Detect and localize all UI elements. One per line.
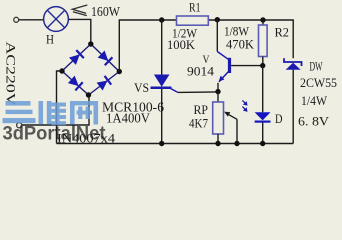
thyristor VS anode lead [161, 20, 163, 75]
node base junction [260, 63, 265, 68]
resistor R2 lead bottom [262, 57, 264, 66]
resistor R2 lead top [262, 20, 264, 25]
terminal T1 (AC live) [14, 17, 19, 22]
label DW [310, 59, 323, 74]
wire T2 to bridge bottom (AC return) [22, 97, 89, 125]
watermark glyph san (three) [3, 101, 36, 123]
wire bridge left (DC-) down to bottom rail [57, 71, 63, 144]
bridge diode D2 (top-right arm, points to right) [97, 50, 112, 65]
svg-text:100K: 100K [167, 37, 196, 52]
bottom rail [57, 143, 294, 145]
label AC220V (rotated) [4, 42, 19, 107]
lamp H [44, 7, 69, 32]
svg-text:1A400V: 1A400V [106, 111, 150, 126]
label 4K7 [189, 116, 208, 131]
label 1A400V [106, 111, 150, 126]
resistor R1 [177, 16, 209, 25]
svg-text:2CW55: 2CW55 [300, 75, 337, 90]
svg-text:R1: R1 [189, 0, 201, 14]
bridge arm wires (navy) [62, 44, 119, 95]
label MCR100-6 [102, 100, 164, 115]
watermark glyph wei [39, 101, 67, 125]
node bridge bottom [86, 92, 91, 97]
potentiometer RP lead bottom [217, 134, 219, 144]
wire lamp to bridge top [69, 19, 91, 44]
transistor V (9014) [218, 58, 231, 92]
label 9014 [187, 64, 215, 79]
svg-text:VS: VS [134, 80, 149, 95]
label 1/8W [224, 24, 250, 39]
node rail-wiper [234, 141, 239, 146]
label 100K [167, 37, 196, 52]
node bridge top [88, 41, 93, 46]
wire T1 to lamp [19, 19, 44, 21]
label RP [194, 102, 209, 117]
label <=160W [72, 4, 120, 19]
node bridge right [117, 69, 122, 74]
svg-text:DW: DW [310, 59, 323, 74]
svg-text:9014: 9014 [187, 64, 215, 79]
node bridge left [59, 68, 64, 73]
label D [275, 111, 283, 126]
svg-text:D: D [275, 111, 283, 126]
resistor R2 [259, 25, 268, 57]
bridge diode D1 (left-top arm, points to top) [69, 50, 84, 65]
label R2 [275, 25, 290, 40]
photodiode D lead top [262, 66, 264, 113]
thyristor VS [151, 75, 172, 144]
node rail-VS junction [159, 17, 164, 22]
label V [203, 52, 210, 66]
label IN4007x4 [57, 130, 116, 145]
svg-text:R2: R2 [275, 25, 290, 40]
photodiode D [255, 112, 271, 143]
svg-text:H: H [46, 32, 54, 47]
node gate-emitter-RP junction [215, 89, 220, 94]
node rail-collector junction [215, 17, 220, 22]
label 1/2W [172, 25, 198, 40]
watermark 3dPortalNet [3, 124, 107, 145]
potentiometer RP [213, 102, 224, 134]
watermark glyph wang (net) [70, 101, 98, 125]
label H [46, 32, 54, 47]
node rail-D cathode [260, 141, 265, 146]
label 470K [226, 37, 255, 52]
zener DW [284, 58, 302, 143]
label 1/4W [301, 93, 328, 108]
label R1 [189, 0, 201, 14]
thyristor gate wire [171, 89, 218, 93]
wire bridge right (DC+) up and top rail [119, 20, 293, 72]
photodiode light arrows [242, 100, 247, 111]
svg-text:6. 8V: 6. 8V [298, 114, 330, 129]
transistor base wire [231, 65, 263, 67]
bridge diode D4 (bottom-right arm, points to right) [96, 76, 111, 91]
svg-text:4K7: 4K7 [189, 116, 208, 131]
svg-text:470K: 470K [226, 37, 255, 52]
terminal T2 (AC neutral) [17, 123, 22, 128]
wire collector from rail [217, 20, 228, 60]
svg-text:AC220V: AC220V [4, 42, 19, 107]
label VS [134, 80, 149, 95]
label 2CW55 [300, 75, 337, 90]
potentiometer RP lead top [217, 92, 219, 102]
node rail-R2 junction [260, 17, 265, 22]
svg-text:3dPortalNet: 3dPortalNet [3, 124, 107, 145]
node rail-VS cathode [159, 141, 164, 146]
svg-text:160W: 160W [91, 4, 120, 19]
potentiometer RP wiper arrow [224, 112, 237, 144]
label 6.8V [298, 114, 330, 129]
bridge diode D3 (left-bottom arm, points to bottom) [68, 75, 83, 90]
node rail-RP bottom [215, 141, 220, 146]
svg-text:1/4W: 1/4W [301, 93, 328, 108]
